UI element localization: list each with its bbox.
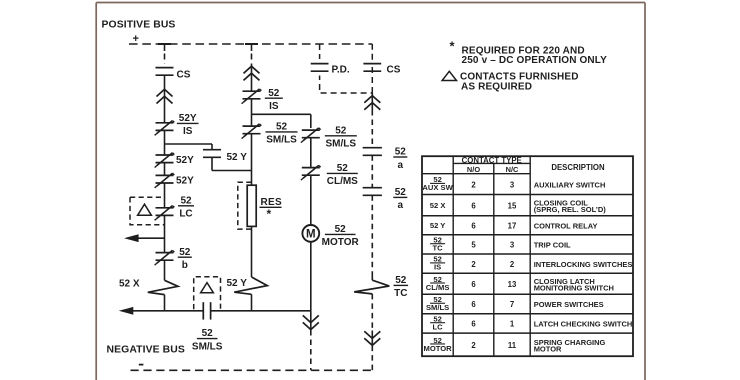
svg-text:CL/MS: CL/MS: [426, 283, 450, 292]
svg-text:52: 52: [268, 88, 280, 99]
coil 52Y: [227, 226, 268, 310]
negative bus wire: [119, 307, 311, 315]
svg-text:6: 6: [471, 320, 476, 329]
svg-text:6: 6: [471, 280, 476, 289]
svg-text:(SPRG, REL. SOL’D): (SPRG, REL. SOL’D): [534, 205, 607, 214]
contact 52/a first: [363, 147, 408, 171]
wire dashed: [371, 155, 373, 187]
disconnect down motor branch: [303, 311, 319, 330]
svg-text:IS: IS: [269, 101, 279, 112]
svg-text:17: 17: [508, 221, 517, 230]
svg-text:52: 52: [179, 247, 191, 258]
label NEGATIVE BUS: [107, 345, 185, 356]
wire: [251, 65, 253, 92]
svg-text:11: 11: [508, 341, 517, 350]
wire dashed to bottom bus: [310, 330, 312, 370]
svg-text:52 Y: 52 Y: [227, 278, 248, 289]
svg-text:52: 52: [395, 275, 407, 286]
coil 52/TC: [354, 275, 408, 299]
svg-text:*: *: [450, 39, 456, 54]
svg-text:M: M: [306, 228, 316, 240]
svg-text:3: 3: [510, 241, 515, 250]
table row power switches: [426, 295, 604, 312]
furnished box LC: [130, 197, 165, 224]
disconnect right branch: [364, 93, 380, 110]
wire tap to 52Y capacitor: [165, 143, 213, 145]
contact 52/SM-LS left: [242, 122, 298, 146]
svg-text:P.D.: P.D.: [332, 65, 350, 76]
table row aux switch: [422, 175, 605, 192]
svg-text:CL/MS: CL/MS: [327, 176, 358, 187]
svg-text:52Y: 52Y: [176, 155, 194, 166]
svg-text:52Y: 52Y: [179, 113, 197, 124]
wire: [164, 75, 166, 123]
svg-text:*: *: [267, 207, 272, 221]
svg-text:AUXILIARY SWITCH: AUXILIARY SWITCH: [534, 180, 606, 189]
disconnect down right branch: [364, 331, 380, 347]
coil 52X: [119, 260, 178, 311]
svg-text:LC: LC: [433, 323, 444, 332]
wire: [310, 175, 312, 225]
svg-text:b: b: [182, 260, 188, 271]
contact CS: [156, 68, 191, 81]
svg-text:NEGATIVE BUS: NEGATIVE BUS: [107, 345, 185, 356]
table grid: [422, 156, 633, 356]
border frame: [96, 3, 645, 380]
wire dashed: [371, 110, 373, 148]
svg-text:5: 5: [471, 241, 476, 250]
wire dashed to bottom bus corner: [371, 346, 373, 371]
svg-text:52: 52: [335, 224, 347, 235]
svg-text:LC: LC: [179, 209, 192, 220]
svg-text:MOTOR: MOTOR: [322, 237, 360, 248]
svg-text:52: 52: [180, 195, 192, 206]
svg-text:CONTROL RELAY: CONTROL RELAY: [534, 221, 598, 230]
svg-text:2: 2: [471, 180, 476, 189]
svg-text:6: 6: [471, 221, 476, 230]
note contacts furnished: [460, 72, 579, 93]
svg-text:13: 13: [508, 280, 517, 289]
motor U1: [302, 224, 359, 248]
svg-text:52: 52: [337, 163, 349, 174]
contact 52/a second: [363, 187, 408, 211]
svg-text:6: 6: [471, 300, 476, 309]
svg-text:CS: CS: [387, 65, 401, 76]
svg-text:LATCH CHECKING SWITCH: LATCH CHECKING SWITCH: [534, 320, 633, 329]
note required text: [462, 46, 608, 67]
furnished box SM/LS: [194, 277, 221, 309]
contact 52Y second: [155, 173, 195, 188]
table row interlocking: [430, 255, 632, 272]
svg-text:POWER SWITCHES: POWER SWITCHES: [534, 300, 604, 309]
svg-text:52 Y: 52 Y: [430, 221, 445, 230]
wire: [164, 183, 166, 208]
capacitor 52/SM-LS: [192, 302, 223, 352]
wire: [164, 215, 166, 252]
svg-text:MOTOR: MOTOR: [424, 344, 453, 353]
positive bus wire: [129, 43, 372, 45]
svg-text:250 v – DC OPERATION ONLY: 250 v – DC OPERATION ONLY: [462, 55, 608, 66]
svg-text:POSITIVE BUS: POSITIVE BUS: [102, 20, 176, 31]
svg-text:52 X: 52 X: [430, 201, 446, 210]
bottom negative bus wire: [131, 369, 373, 371]
svg-text:N/O: N/O: [467, 165, 480, 174]
svg-text:2: 2: [471, 341, 476, 350]
minus terminal: [139, 364, 144, 366]
wire: [164, 130, 166, 155]
disconnect left branch: [157, 89, 173, 103]
furnished box PD: [320, 44, 373, 93]
table row latch checking: [430, 315, 632, 332]
tap arrow upper: [124, 234, 165, 242]
svg-text:SM/LS: SM/LS: [326, 139, 357, 150]
wire: [310, 138, 312, 168]
resistor RES: [247, 185, 282, 226]
furnished bracket RES: [238, 182, 252, 229]
contact 52/LC: [155, 195, 194, 220]
svg-text:3: 3: [510, 180, 515, 189]
wire dashed: [371, 294, 373, 331]
contact 52/CL-MS: [301, 163, 358, 187]
contact CS right: [363, 64, 400, 76]
svg-text:DESCRIPTION: DESCRIPTION: [551, 163, 605, 172]
table row closing latch: [426, 275, 614, 293]
legend triangle: [442, 71, 456, 80]
svg-text:52 X: 52 X: [119, 278, 140, 289]
svg-text:RES: RES: [261, 197, 282, 208]
table row 52X: [430, 199, 607, 214]
triangle LC: [138, 204, 152, 215]
svg-text:INTERLOCKING SWITCHES: INTERLOCKING SWITCHES: [534, 260, 633, 269]
svg-text:TC: TC: [394, 288, 407, 299]
contact 52Y first: [155, 153, 195, 168]
contact 52Y/IS: [155, 113, 199, 137]
svg-text:52: 52: [335, 125, 347, 136]
svg-text:MOTOR: MOTOR: [534, 344, 562, 353]
table header contact type: [462, 156, 522, 165]
svg-text:1: 1: [510, 320, 515, 329]
svg-text:IS: IS: [183, 126, 193, 137]
svg-text:SM/LS: SM/LS: [266, 135, 297, 146]
svg-text:a: a: [398, 200, 404, 211]
svg-text:AS REQUIRED: AS REQUIRED: [461, 81, 532, 92]
svg-text:2: 2: [471, 260, 476, 269]
table row 52Y: [430, 221, 598, 230]
table row spring charging: [424, 336, 606, 354]
wire: [251, 134, 253, 185]
wire: [164, 163, 166, 176]
svg-text:52: 52: [395, 147, 407, 158]
svg-text:6: 6: [471, 201, 476, 210]
table header DESCRIPTION: [551, 163, 605, 172]
svg-text:SM/LS: SM/LS: [426, 303, 449, 312]
svg-text:52Y: 52Y: [176, 176, 194, 187]
contact 52/SM-LS right: [301, 125, 357, 149]
svg-text:2: 2: [510, 260, 515, 269]
capacitor 52Y: [203, 144, 247, 171]
disconnect middle branch: [244, 66, 260, 80]
svg-text:TRIP COIL: TRIP COIL: [534, 241, 571, 250]
svg-text:N/C: N/C: [506, 165, 519, 174]
svg-text:a: a: [398, 160, 404, 171]
wire elbow to middle branch: [212, 170, 252, 172]
svg-text:52: 52: [276, 122, 288, 133]
table header N/O: [467, 165, 480, 174]
svg-text:MONITORING SWITCH: MONITORING SWITCH: [534, 284, 614, 293]
svg-text:SM/LS: SM/LS: [192, 341, 223, 352]
svg-text:7: 7: [510, 300, 514, 309]
svg-text:52: 52: [202, 328, 214, 339]
svg-text:CONTACT TYPE: CONTACT TYPE: [462, 156, 522, 165]
node tick middle branch: [245, 44, 258, 51]
note asterisk: [450, 39, 456, 54]
wire: [310, 242, 312, 311]
triangle SM/LS: [201, 283, 214, 293]
svg-text:CS: CS: [177, 69, 191, 80]
capacitor P.D.: [311, 59, 350, 76]
plus terminal: [133, 33, 139, 45]
wire left branch stub: [164, 54, 166, 64]
table row trip coil: [430, 236, 571, 253]
svg-text:15: 15: [508, 201, 517, 210]
svg-text:TC: TC: [433, 244, 444, 253]
label POSITIVE BUS: [102, 20, 176, 31]
svg-text:52: 52: [395, 187, 407, 198]
svg-text:IS: IS: [434, 263, 441, 272]
contact 52/b: [155, 247, 192, 271]
wire middle branch stub: [251, 54, 253, 65]
contact 52/IS: [242, 88, 283, 112]
svg-text:+: +: [133, 33, 139, 45]
wire dashed: [371, 195, 373, 276]
table header N/C: [506, 165, 519, 174]
svg-text:AUX SW: AUX SW: [422, 183, 453, 192]
wire: [251, 99, 253, 126]
svg-text:52 Y: 52 Y: [227, 152, 248, 163]
junction wire to parallel path: [252, 114, 311, 128]
node tick left branch: [158, 44, 171, 51]
